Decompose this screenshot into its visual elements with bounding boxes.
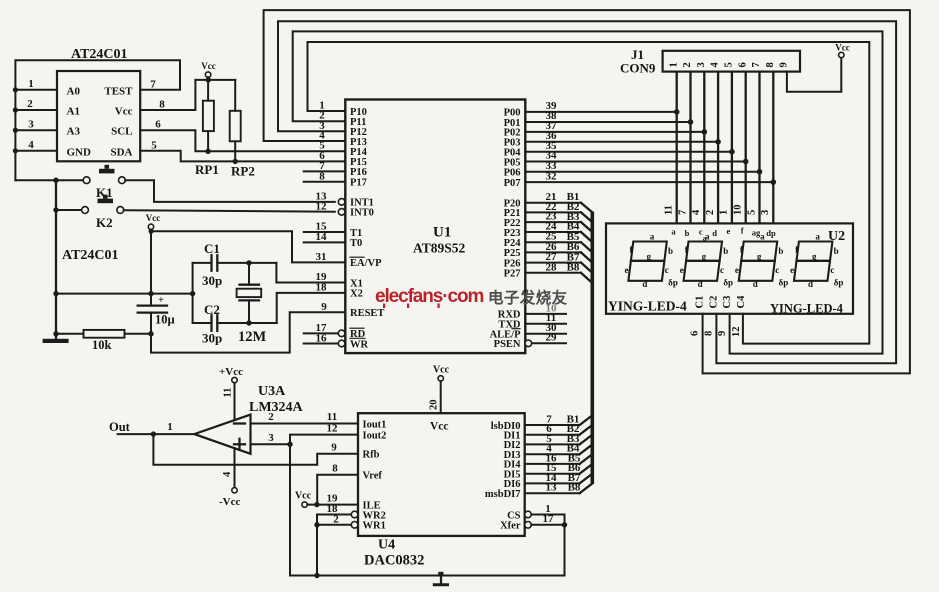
wire P20 pin21 B1 xyxy=(525,191,592,212)
wire analog ground rail xyxy=(290,575,565,577)
svg-text:X1: X1 xyxy=(350,278,363,289)
connector J1 CON9 xyxy=(620,47,800,76)
svg-text:YING-LED-4: YING-LED-4 xyxy=(770,302,844,316)
svg-text:7: 7 xyxy=(751,62,762,67)
svg-text:SCL: SCL xyxy=(111,126,132,138)
pin stub ALE/P pin30 xyxy=(525,322,566,334)
svg-text:g: g xyxy=(646,252,651,262)
wire DI6 pin14 B7 xyxy=(525,472,593,484)
svg-text:9: 9 xyxy=(779,62,790,67)
wire Xfer pin17 to ground rail xyxy=(525,513,568,575)
wire segment dp J1-8 to LED xyxy=(760,72,773,224)
wire left rail and TEST loop xyxy=(15,60,180,180)
svg-text:P16: P16 xyxy=(350,167,367,178)
svg-text:GND: GND xyxy=(67,146,92,158)
eeprom U AT24C01 xyxy=(57,47,140,161)
svg-text:30p: 30p xyxy=(202,273,222,288)
svg-text:K2: K2 xyxy=(96,215,113,230)
wire eeprom pin8 Vcc to RP rail xyxy=(140,80,195,111)
left ground rail xyxy=(55,180,57,339)
wire segment g J1-7 to LED xyxy=(746,72,759,224)
svg-text:b: b xyxy=(685,228,690,238)
pin stub RD xyxy=(304,322,345,337)
svg-text:3: 3 xyxy=(760,210,771,215)
svg-text:T1: T1 xyxy=(350,228,362,239)
svg-text:8: 8 xyxy=(703,331,714,336)
svg-text:11: 11 xyxy=(223,388,234,398)
wire P11 wrap to LED C3 xyxy=(293,31,883,353)
svg-text:3: 3 xyxy=(696,62,707,67)
opamp U3A LM324A xyxy=(194,384,303,454)
wire P07 pin32 to J1-8 xyxy=(525,170,776,185)
svg-text:31: 31 xyxy=(316,251,327,263)
wire DI7 pin13 B8 xyxy=(525,482,593,494)
svg-text:12: 12 xyxy=(327,423,339,435)
wire opamp output Out pin1 xyxy=(109,420,194,437)
svg-text:3: 3 xyxy=(28,119,34,131)
svg-text:Vref: Vref xyxy=(363,471,383,482)
svg-text:c: c xyxy=(830,265,834,275)
svg-text:a: a xyxy=(815,232,820,242)
common pin numbers 6 8 9 12 rotated xyxy=(690,327,742,338)
wire DI2 pin5 B3 xyxy=(525,433,593,445)
pin circle INT0 xyxy=(316,201,345,216)
svg-text:2: 2 xyxy=(268,411,274,423)
svg-text:C2: C2 xyxy=(708,296,719,309)
dac U4 DAC0832 xyxy=(358,413,525,568)
svg-text:d: d xyxy=(698,279,703,289)
wire P04 pin35 to J1-5 xyxy=(525,140,734,155)
segment letter labels a-dp xyxy=(671,226,776,243)
wire P02 pin37 to J1-3 xyxy=(525,120,707,135)
svg-text:b: b xyxy=(834,246,839,256)
svg-text:a: a xyxy=(705,232,710,242)
svg-text:U4: U4 xyxy=(378,538,395,553)
7seg digit 4 xyxy=(790,232,843,289)
svg-text:-Vcc: -Vcc xyxy=(219,496,240,508)
svg-text:g: g xyxy=(757,252,762,262)
svg-text:1: 1 xyxy=(167,421,173,433)
svg-text:A3: A3 xyxy=(67,126,81,138)
wire P26 pin27 B7 xyxy=(525,251,592,273)
wire P21 pin22 B2 xyxy=(525,201,592,222)
svg-text:PSEN: PSEN xyxy=(494,339,521,350)
wire DI1 pin6 B2 xyxy=(525,423,593,435)
svg-text:6: 6 xyxy=(155,119,161,131)
svg-text:dp: dp xyxy=(766,228,776,238)
svg-text:TEST: TEST xyxy=(104,86,133,98)
svg-text:5: 5 xyxy=(746,210,757,215)
wire crystal to X1 xyxy=(276,263,345,283)
svg-text:LM324A: LM324A xyxy=(249,400,304,415)
wire P12 wrap to LED C2 xyxy=(278,21,896,363)
wire eeprom pin5 SDA to P15 net xyxy=(140,139,345,161)
label AT24C01 section xyxy=(62,248,119,263)
svg-text:b: b xyxy=(723,246,728,256)
wire P00 pin39 to J1-1 xyxy=(525,100,679,115)
svg-text:C1: C1 xyxy=(695,296,706,309)
svg-text:U1: U1 xyxy=(433,225,451,241)
wire P22 pin23 B3 xyxy=(525,211,592,232)
wire eeprom pin2 A1 xyxy=(13,98,57,113)
svg-text:e: e xyxy=(680,265,684,275)
svg-text:5: 5 xyxy=(724,62,735,67)
svg-text:7: 7 xyxy=(150,79,156,91)
key K1 xyxy=(15,165,125,200)
svg-text:g: g xyxy=(812,252,817,262)
mcu U1 AT89S52 xyxy=(345,100,525,354)
svg-text:8: 8 xyxy=(332,462,338,474)
svg-text:WR: WR xyxy=(350,339,369,350)
svg-text:6: 6 xyxy=(690,331,701,336)
svg-text:12: 12 xyxy=(316,201,328,213)
svg-text:10µ: 10µ xyxy=(155,313,175,327)
svg-text:9: 9 xyxy=(717,331,728,336)
svg-text:P27: P27 xyxy=(504,269,521,280)
wire P23 pin24 B4 xyxy=(525,221,592,243)
svg-text:a: a xyxy=(760,232,765,242)
svg-text:a: a xyxy=(650,232,655,242)
svg-text:c: c xyxy=(775,265,779,275)
watermark elecfans.com xyxy=(375,286,568,308)
wire eeprom pin6 SCL to P14 net xyxy=(140,119,345,152)
svg-text:8: 8 xyxy=(159,99,165,111)
svg-text:Vcc: Vcc xyxy=(430,421,449,433)
svg-text:e: e xyxy=(625,265,629,275)
svg-text:电子发烧友: 电子发烧友 xyxy=(488,288,568,307)
wire eeprom pin4 GND xyxy=(13,139,57,153)
svg-text:WR1: WR1 xyxy=(363,521,386,532)
wire crystal to X2 xyxy=(277,293,346,323)
7seg digit 3 xyxy=(735,232,788,289)
capacitor C1 30p xyxy=(193,241,277,288)
wire P13 wrap to LED C1 xyxy=(264,10,910,373)
wire Vref pin8 to Vcc ILE node xyxy=(317,462,358,504)
pin label 9 RESET xyxy=(321,301,327,313)
crystal network left rail xyxy=(192,263,194,323)
svg-text:msbDI7: msbDI7 xyxy=(485,489,521,500)
svg-text:P07: P07 xyxy=(504,178,521,189)
svg-text:EA/VP: EA/VP xyxy=(350,258,382,269)
svg-text:9: 9 xyxy=(331,441,337,453)
capacitor C2 30p xyxy=(193,302,277,346)
svg-text:d: d xyxy=(753,279,758,289)
svg-text:+: + xyxy=(158,295,164,306)
svg-text:Xfer: Xfer xyxy=(500,521,521,532)
svg-text:δp: δp xyxy=(834,278,844,288)
svg-text:20: 20 xyxy=(429,400,440,411)
pin labels 1-8 P1x xyxy=(319,100,325,183)
svg-text:d: d xyxy=(642,279,647,289)
svg-text:12M: 12M xyxy=(238,329,267,345)
wire segment f J1-6 to LED xyxy=(733,72,746,224)
svg-text:Iout2: Iout2 xyxy=(363,430,387,441)
svg-text:C3: C3 xyxy=(722,296,733,309)
key K2 xyxy=(53,195,123,230)
7seg digit 2 xyxy=(680,232,733,289)
svg-text:4: 4 xyxy=(222,471,233,477)
svg-text:1: 1 xyxy=(668,62,679,67)
ground dac xyxy=(433,572,449,585)
svg-text:YING-LED-4: YING-LED-4 xyxy=(608,299,687,314)
svg-text:17: 17 xyxy=(543,513,555,525)
svg-text:11: 11 xyxy=(664,205,675,215)
svg-text:6: 6 xyxy=(737,62,748,67)
svg-text:29: 29 xyxy=(546,332,558,344)
svg-text:Out: Out xyxy=(109,420,131,434)
svg-text:5: 5 xyxy=(151,139,157,151)
svg-text:28: 28 xyxy=(546,261,558,273)
svg-text:δp: δp xyxy=(723,278,733,288)
wire inverting input pin2 to Iout1 pin11 xyxy=(251,411,359,424)
wire J1-9 to Vcc xyxy=(787,43,850,92)
wire CS pin1 xyxy=(525,503,565,525)
svg-text:2: 2 xyxy=(682,62,693,67)
capacitor 10u electrolytic xyxy=(138,295,175,336)
svg-text:INT0: INT0 xyxy=(350,208,374,219)
svg-text:g: g xyxy=(702,252,707,262)
svg-text:7: 7 xyxy=(677,210,688,215)
pin label 19 X1 xyxy=(316,271,328,283)
svg-text:P06: P06 xyxy=(504,168,521,179)
svg-text:2: 2 xyxy=(27,98,33,110)
bus B1-B8 vertical xyxy=(590,212,594,484)
pin label 18 X2 xyxy=(316,282,328,294)
svg-text:RESET: RESET xyxy=(350,308,384,319)
svg-text:30p: 30p xyxy=(202,331,222,346)
wire P10 wrap to LED C4 xyxy=(308,42,870,344)
svg-text:12: 12 xyxy=(731,327,742,338)
svg-text:f: f xyxy=(741,226,744,236)
svg-text:AT89S52: AT89S52 xyxy=(413,241,466,256)
pin stub T1 xyxy=(304,221,346,233)
wire eeprom pin1 A0 xyxy=(13,78,57,92)
svg-text:U3A: U3A xyxy=(258,384,286,399)
wire eeprom pin3 A3 xyxy=(13,119,57,133)
svg-text:P17: P17 xyxy=(350,178,367,189)
svg-text:1: 1 xyxy=(719,210,730,215)
wire P06 pin33 to J1-7 xyxy=(525,160,762,175)
svg-text:C1: C1 xyxy=(204,241,220,256)
svg-text:C4: C4 xyxy=(736,295,747,309)
svg-text:Vcc: Vcc xyxy=(146,213,161,223)
svg-text:B8: B8 xyxy=(568,482,581,494)
svg-text:AT24C01: AT24C01 xyxy=(62,248,119,263)
resistor RP2 xyxy=(230,111,255,179)
wire feedback Out to Rfb pin9 xyxy=(153,434,358,465)
svg-text:B8: B8 xyxy=(567,262,580,274)
wire P01 pin38 to J1-2 xyxy=(525,110,693,125)
svg-text:c: c xyxy=(720,265,724,275)
svg-text:b: b xyxy=(778,246,783,256)
wire segment a J1-1 to LED xyxy=(664,72,677,224)
pin stub RXD pin10 xyxy=(525,302,566,314)
svg-text:+Vcc: +Vcc xyxy=(219,366,243,378)
svg-text:DAC0832: DAC0832 xyxy=(364,553,424,569)
svg-text:2: 2 xyxy=(705,210,716,215)
svg-text:c: c xyxy=(665,265,669,275)
crystal Y1 12M xyxy=(237,260,267,345)
pin circle WR2 xyxy=(351,511,358,518)
svg-text:16: 16 xyxy=(316,332,328,344)
wire P03 pin36 to J1-4 xyxy=(525,130,721,145)
svg-text:b: b xyxy=(668,246,673,256)
pin stub P17 xyxy=(304,181,346,183)
wire Iout2 pin12 to ground rail xyxy=(290,423,358,576)
ground left xyxy=(43,339,69,343)
svg-text:Rfb: Rfb xyxy=(363,450,380,461)
svg-text:elecfans·com: elecfans·com xyxy=(375,286,483,307)
pin stub TXD pin11 xyxy=(525,312,566,324)
pin stub WR xyxy=(304,332,345,347)
wire gnd rail to cap rail xyxy=(53,291,195,296)
svg-text:13: 13 xyxy=(546,482,558,494)
svg-text:e: e xyxy=(735,265,739,275)
resistor 10k xyxy=(53,330,151,352)
svg-text:8: 8 xyxy=(765,62,776,67)
svg-text:10: 10 xyxy=(733,205,744,216)
svg-text:Iout1: Iout1 xyxy=(363,419,387,430)
wire K2 to INT0 xyxy=(124,210,335,212)
svg-text:RP1: RP1 xyxy=(195,162,219,177)
pin stub T0 xyxy=(304,231,346,243)
svg-text:11: 11 xyxy=(327,411,337,423)
power Vcc reset node xyxy=(146,213,161,305)
svg-text:A1: A1 xyxy=(67,106,80,118)
svg-text:2: 2 xyxy=(333,513,339,525)
svg-text:SDA: SDA xyxy=(110,146,132,158)
wire DI5 pin15 B6 xyxy=(525,462,593,474)
svg-text:CON9: CON9 xyxy=(620,61,656,76)
svg-text:Vcc: Vcc xyxy=(835,43,850,53)
svg-text:10k: 10k xyxy=(92,338,112,352)
svg-text:4: 4 xyxy=(710,62,721,68)
svg-text:d: d xyxy=(712,228,717,238)
wire P24 pin25 B5 xyxy=(525,231,592,253)
wire segment b J1-2 to LED xyxy=(677,72,690,224)
wire K1 to INT1 xyxy=(53,178,335,202)
pin stub PSEN pin29 xyxy=(525,332,566,347)
svg-text:4: 4 xyxy=(691,209,702,215)
svg-text:δp: δp xyxy=(668,278,678,288)
svg-text:RP2: RP2 xyxy=(231,164,255,179)
wire segment d J1-4 to LED xyxy=(705,72,718,224)
power +Vcc opamp pin11 xyxy=(219,366,243,420)
svg-text:T0: T0 xyxy=(350,238,362,249)
wire WR1 pin2 to ground rail xyxy=(314,513,351,578)
pin circle INT1 xyxy=(316,190,345,205)
svg-text:d: d xyxy=(808,279,813,289)
svg-text:e: e xyxy=(790,265,794,275)
power -Vcc opamp pin4 xyxy=(219,448,240,508)
svg-text:A0: A0 xyxy=(67,86,81,98)
common labels C1-C4 rotated xyxy=(695,295,747,309)
svg-text:3: 3 xyxy=(268,432,274,444)
power Vcc dac pin20 xyxy=(429,365,450,414)
pin label 31 EA xyxy=(316,251,327,263)
wire P05 pin34 to J1-6 xyxy=(525,150,748,165)
wire DI3 pin4 B4 xyxy=(525,443,593,455)
svg-text:δp: δp xyxy=(779,278,789,288)
svg-text:C2: C2 xyxy=(204,302,220,317)
pin stub P16 xyxy=(304,170,346,172)
svg-text:Vcc: Vcc xyxy=(433,365,450,376)
wire reset RC node to RESET pin9 xyxy=(151,312,345,352)
svg-text:9: 9 xyxy=(321,301,327,313)
svg-text:Vcc: Vcc xyxy=(201,61,216,71)
wire DI0 pin7 B1 xyxy=(525,413,593,425)
wire segment c J1-3 to LED xyxy=(691,72,704,224)
svg-text:Vcc: Vcc xyxy=(295,491,312,502)
wire segment e J1-5 to LED xyxy=(719,72,732,224)
svg-text:32: 32 xyxy=(546,170,558,182)
svg-text:1: 1 xyxy=(28,78,34,90)
svg-text:18: 18 xyxy=(316,282,328,294)
wire Vcc to EA/VP pin31 xyxy=(151,231,345,262)
pin circle WR1 xyxy=(351,522,358,529)
svg-text:X2: X2 xyxy=(350,289,363,300)
svg-text:Vcc: Vcc xyxy=(115,106,133,118)
wire WR2 pin18 xyxy=(317,503,351,525)
wire DI4 pin16 B5 xyxy=(525,452,593,464)
wire P27 pin28 B8 xyxy=(525,261,592,283)
display U2 YING-LED-4 xyxy=(606,223,853,315)
resistor RP1 xyxy=(195,101,219,177)
7seg digit 1 xyxy=(625,232,678,289)
svg-text:e: e xyxy=(727,226,731,236)
power Vcc for RP1 RP2 xyxy=(195,61,235,111)
svg-text:4: 4 xyxy=(28,139,34,151)
wire P25 pin26 B6 xyxy=(525,241,592,263)
svg-text:14: 14 xyxy=(316,231,328,243)
power Vcc ILE xyxy=(295,491,358,508)
wire noninverting input pin3 xyxy=(251,432,293,447)
